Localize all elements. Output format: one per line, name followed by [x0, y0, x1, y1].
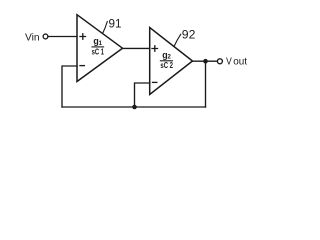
svg-text:sC 2: sC 2 [160, 61, 173, 70]
wire output node down [205, 61, 207, 107]
op-amp U92 triangle [150, 28, 193, 95]
fraction bar of U92 [160, 60, 172, 62]
svg-text:out: out [233, 56, 247, 68]
svg-text:92: 92 [182, 28, 196, 41]
svg-text:91: 91 [109, 17, 122, 30]
value g2/sC2 of U92 [160, 50, 173, 70]
pin - of U92 [153, 81, 157, 83]
leader line to 92 [174, 34, 181, 46]
input terminal [43, 34, 48, 39]
junction feedback to U92 [132, 105, 137, 110]
leader line to 91 [103, 22, 108, 34]
op-amp U91 triangle [77, 15, 123, 82]
pin - of U91 [80, 65, 84, 67]
pin + of U91 [80, 34, 86, 39]
output terminal [217, 59, 222, 64]
svg-text:1: 1 [99, 40, 103, 47]
wire Vin to op-amp 91 + input [48, 36, 77, 38]
wire U91 output to U92 + input [123, 47, 150, 49]
junction output node [203, 59, 208, 64]
wire feedback up to U91 - input [62, 66, 77, 107]
svg-text:V: V [226, 56, 232, 68]
svg-text:Vin: Vin [25, 33, 40, 44]
wire feedback up to U92 - input [135, 83, 150, 107]
value g1/sC1 of U91 [92, 36, 105, 56]
pin + of U92 [152, 46, 158, 51]
svg-text:2: 2 [167, 54, 171, 61]
fraction bar of U91 [92, 46, 104, 48]
svg-text:sC 1: sC 1 [92, 48, 105, 57]
wire U92 output to Vout terminal [193, 60, 218, 62]
wire bottom feedback rail [62, 106, 206, 108]
